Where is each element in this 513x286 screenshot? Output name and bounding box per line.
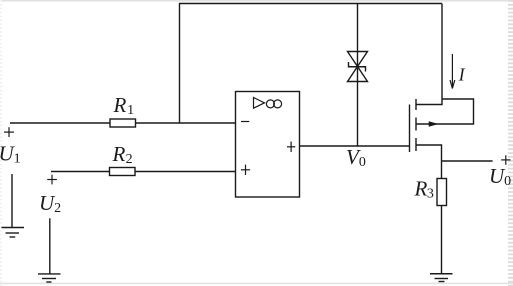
resistor R2 xyxy=(110,168,136,176)
wire zener branch vertical xyxy=(357,4,359,147)
resistor R1 xyxy=(110,119,136,127)
wire drain to top rail xyxy=(416,4,442,105)
wire inverting input net (U1 through R1 to op-amp) xyxy=(10,122,236,124)
wire non-inverting input net (U2 through R2 to op-amp) xyxy=(51,171,236,173)
ground (right, below R3) xyxy=(430,274,453,282)
svg-text:I: I xyxy=(458,65,466,85)
wire U1 source return to ground xyxy=(11,174,13,228)
ground (left, under U1) xyxy=(2,228,25,238)
op-amp A xyxy=(236,92,300,198)
op-amp non-inverting input marker + xyxy=(241,165,250,175)
wire output branch to U0 terminal xyxy=(442,160,493,162)
wire op-amp output to gate (node V0) xyxy=(300,145,410,147)
op-amp gain symbol (triangle + infinity) xyxy=(254,98,282,109)
op-amp inverting input marker - xyxy=(241,121,249,123)
resistor R3 xyxy=(437,179,447,206)
terminal marker + of U1 xyxy=(4,127,14,137)
wire source down to R3 and ground xyxy=(416,145,442,274)
wire top feedback rail xyxy=(180,4,443,124)
transistor Q1 (n-channel MOSFET) xyxy=(410,99,439,152)
ground (middle, under U2) xyxy=(38,274,61,282)
wire U2 source return to ground xyxy=(49,218,51,274)
zener diode D1 (bidirectional) xyxy=(348,52,368,82)
terminal marker + of U0 xyxy=(501,155,510,165)
terminal marker + of U2 xyxy=(47,175,57,185)
current arrow I xyxy=(450,54,455,89)
wire bulk loop to drain node xyxy=(416,99,474,124)
op-amp output polarity marker + xyxy=(287,142,295,153)
